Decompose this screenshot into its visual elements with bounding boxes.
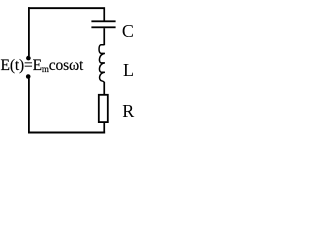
wire: resistor to bottom rail — [103, 123, 105, 134]
wire: capacitor to inductor — [103, 28, 105, 45]
capacitor C: bottom plate — [91, 26, 115, 28]
label R — [122, 102, 134, 120]
wire: top stub to capacitor — [103, 9, 105, 21]
label C — [122, 22, 134, 40]
source value label: E(t)=Em cos wt — [1, 58, 84, 74]
wire: left branch upper segment — [28, 7, 30, 56]
label L — [123, 61, 134, 79]
resistor R: body rectangle — [99, 95, 108, 122]
capacitor C: top plate — [91, 20, 115, 22]
wire: left branch lower segment — [28, 78, 30, 133]
inductor L: coil of 4 loops — [99, 45, 105, 83]
node: source bottom terminal dot — [26, 74, 31, 79]
wire: bottom rail — [28, 132, 105, 134]
wire: inductor to resistor — [103, 82, 105, 95]
wire: top rail — [28, 7, 105, 9]
node: source top terminal dot — [26, 56, 31, 61]
